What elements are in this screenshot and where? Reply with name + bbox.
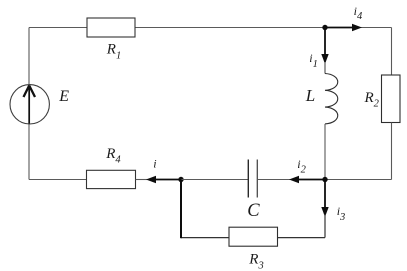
node A junction dot [178, 177, 183, 182]
resistor R4 [87, 146, 136, 189]
node B junction dot [322, 177, 327, 182]
svg-text:R3: R3 [248, 252, 263, 271]
current arrow i3 [321, 180, 345, 223]
wire capacitor to arrow i2 [257, 179, 293, 181]
wire inductor bottom to node B [324, 124, 326, 180]
current arrow i2 [289, 157, 325, 183]
svg-text:i3: i3 [337, 204, 346, 223]
svg-text:R2: R2 [364, 90, 380, 110]
resistor R2 [364, 75, 401, 123]
wire i3 arrow down to bottom corner [324, 214, 326, 238]
resistor R1 [87, 18, 135, 62]
svg-text:R4: R4 [105, 146, 121, 166]
source E [10, 85, 69, 124]
wire top horizontal right of R1 [135, 27, 392, 29]
svg-text:E: E [58, 88, 69, 105]
current arrow i1 [309, 28, 328, 71]
capacitor C [247, 160, 260, 221]
svg-text:L: L [305, 86, 315, 105]
wire bottom right horizontal [278, 237, 326, 239]
svg-text:R1: R1 [106, 42, 121, 62]
svg-text:i1: i1 [309, 51, 318, 70]
current arrow i [146, 157, 181, 184]
wire node A to capacitor [181, 179, 248, 181]
inductor L [305, 74, 338, 124]
wire R4 to arrow i [136, 179, 151, 181]
wire i1 arrow to inductor top [324, 62, 326, 74]
wire right vertical lower [391, 123, 393, 180]
wire node B to right corner [325, 179, 392, 181]
wire right vertical upper [391, 28, 393, 76]
wire R3 to bottom left corner [181, 237, 229, 239]
node top junction dot [322, 25, 327, 30]
wire bottom-left horizontal to R4 [29, 179, 87, 181]
wire thick vertical from node A down [180, 180, 182, 239]
svg-text:i: i [153, 157, 156, 171]
wire left vertical [28, 28, 30, 180]
svg-text:i2: i2 [297, 157, 306, 176]
wire top horizontal left of R1 [29, 27, 87, 29]
current arrow i4 [325, 4, 363, 31]
resistor R3 [229, 227, 278, 271]
svg-text:C: C [247, 201, 260, 221]
svg-text:i4: i4 [354, 4, 363, 22]
